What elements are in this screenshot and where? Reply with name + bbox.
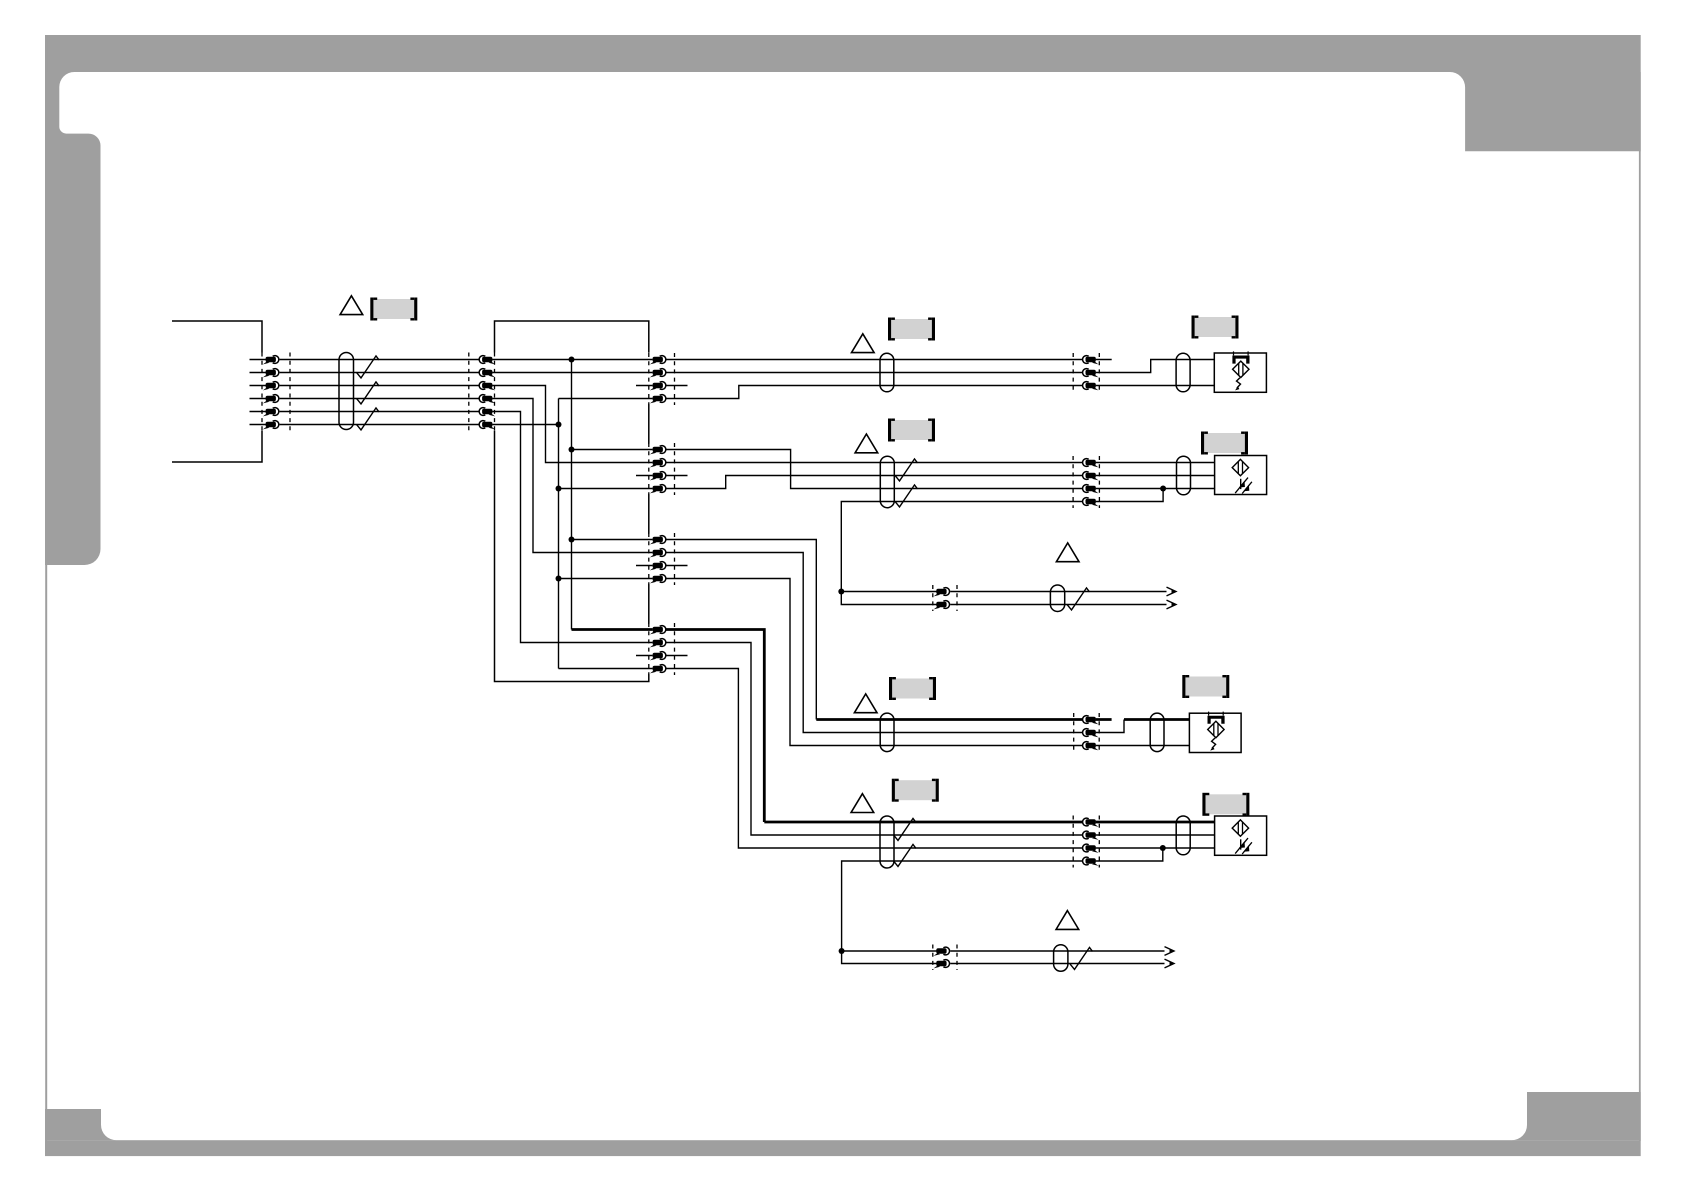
arrow, branch2 upper off-page <box>1165 947 1175 956</box>
twisted pair marker, cable4 pair 3-4 <box>894 844 917 866</box>
bus A vertical <box>571 360 573 630</box>
device D1 (photo emitter unit) <box>1214 351 1266 392</box>
twisted pair marker, cable4 pair 1-2 <box>894 818 917 840</box>
wire, NC stub left, group 4 pin3 <box>636 655 653 657</box>
arrow, branch2 lower off-page <box>1165 959 1175 968</box>
wire, input 2 to group1 pin2 <box>492 372 652 374</box>
wire, bus A to group2 pin1 <box>572 449 653 451</box>
central box right edge, dashed across pin groups <box>648 353 650 405</box>
wire, bus A to group3 pin1 <box>572 539 653 541</box>
wire, cable3 conductor 3 <box>666 579 1082 746</box>
wire, device3 return <box>1096 745 1190 747</box>
junction, bus B / group2 pin4 <box>556 486 562 492</box>
wire, branch2 lower run <box>950 963 1164 965</box>
bus B vertical <box>558 399 560 669</box>
connector pin, central input, pin 6 <box>479 421 495 430</box>
connector pin, source side, pin 2 <box>263 369 279 378</box>
wire, bus B to group1 pin4 <box>559 398 653 400</box>
cable shield, source cable <box>339 353 354 430</box>
cable shield, cable4 <box>880 816 894 868</box>
wire, input 6 to bus B <box>492 424 558 426</box>
wire, device2 line 1 <box>1096 462 1215 464</box>
connector pin, group 2 pin 2 <box>650 459 666 468</box>
wire, cable2 shield conductor / branch1 tie <box>841 502 1082 605</box>
connector pin, central input, pin 4 <box>479 395 495 404</box>
connector pin, branch2 pin2 <box>934 960 950 969</box>
connector pin, device1 connector pin 2 <box>1083 369 1099 378</box>
wire, bus B to group2 pin4 <box>559 488 653 490</box>
wire, input 5 to group4 pin2 <box>492 412 652 643</box>
connector pin, branch1 pin1 <box>934 588 950 597</box>
wire, bus B to group3 pin4 <box>559 578 653 580</box>
label placeholder, device4 <box>1202 793 1249 816</box>
wire, cable2 conductor from group2 pin4 (jog up) <box>666 476 1082 489</box>
wire, device3 signal jog up <box>1096 720 1124 733</box>
wire, device4 line 1 (bold) <box>1096 821 1215 824</box>
warning triangle, branch2 <box>1056 911 1079 930</box>
warning triangle, source cable <box>340 296 363 315</box>
wire, input 3 to group2 pin2 <box>492 386 652 463</box>
connector group 4, dashed boundary <box>674 623 676 675</box>
wire, NC stub left, group 2 pin3 <box>636 475 653 477</box>
wire, source cable conductor 5 <box>280 411 479 413</box>
label placeholder, device2 <box>1201 432 1248 455</box>
twisted pair marker, cable2 pair 3-4 <box>895 485 918 507</box>
wire, source cable conductor 6 <box>280 424 479 426</box>
wire, group4 pin1 drop (bold) <box>666 630 764 823</box>
wire, cable4 conductor 1 (bold) <box>764 821 1082 824</box>
wire, cable3 conductor 1 (bold) <box>816 718 1082 721</box>
connector pin, central input, pin 2 <box>479 369 495 378</box>
connector pin, device3 connector pin 3 <box>1083 742 1099 751</box>
connector CN device1, dashed boundaries <box>1072 353 1074 392</box>
wire stub inside source unit, pin 6 <box>250 424 267 426</box>
cable shield, cable1 <box>880 353 894 392</box>
wire, NC stub left, group 3 pin3 <box>636 565 653 567</box>
connector pin, device4 connector pin 1 <box>1083 818 1099 827</box>
wire, cable1 conductor 2 <box>666 372 1082 374</box>
wire, cable4 conductor 3 <box>666 669 1082 849</box>
wire, NC stub right, group 4 pin3 <box>666 655 688 657</box>
connector pin, central input, pin 1 <box>479 356 495 365</box>
label placeholder, cable1 <box>888 318 935 341</box>
connector pin, source side, pin 6 <box>263 421 279 430</box>
source unit box (open left) <box>172 321 262 462</box>
junction, bus A / group3 pin1 <box>569 537 575 543</box>
junction, bus B / input 6 <box>556 422 562 428</box>
wire, device1 return <box>1096 385 1215 387</box>
wire, device2 line 2 <box>1096 475 1215 477</box>
connector pin, group 2 pin 4 <box>650 485 666 494</box>
wire stub inside source unit, pin 2 <box>250 372 267 374</box>
wire, cable1 conductor 1 <box>666 359 1082 361</box>
connector pin, device2 connector pin 2 <box>1083 472 1099 481</box>
connector pin, device4 connector pin 2 <box>1083 831 1099 840</box>
wire, cable1 conductor 3 (jog up) <box>666 386 1082 399</box>
wire, NC stub device3 pin1 (bold) <box>1096 718 1112 721</box>
warning triangle, cable1 <box>852 334 875 353</box>
connector pin, group 2 pin 1 <box>650 446 666 455</box>
junction, branch2 tie <box>839 948 845 954</box>
connector pin, central input, pin 3 <box>479 382 495 391</box>
connector pin, device2 connector pin 3 <box>1083 485 1099 494</box>
wire, source cable conductor 2 <box>280 372 479 374</box>
connector CN device2, dashed boundaries <box>1072 456 1074 508</box>
wire, device3 signal (bold) <box>1124 718 1189 721</box>
wire, device2 line 3 <box>1096 488 1215 490</box>
wire, source cable conductor 3 <box>280 385 479 387</box>
wire, cable3 conductor 2 <box>666 553 1082 733</box>
wire, group3 pin1 drop <box>666 540 816 720</box>
cable shield, device4 pigtail <box>1176 816 1190 855</box>
connector pin, group 3 pin 1 <box>650 536 666 545</box>
wire, source cable conductor 1 <box>280 359 479 361</box>
junction, device2 lines 3-4 <box>1160 486 1166 492</box>
connector CN device3, dashed boundaries <box>1073 713 1075 752</box>
wire, branch1 upper run <box>950 591 1166 593</box>
junction, branch1 tie <box>838 589 844 595</box>
wire, NC stub right, group 3 pin3 <box>666 565 688 567</box>
arrow, branch1 lower off-page <box>1167 600 1177 609</box>
wire, NC stub right, group 2 pin3 <box>666 475 688 477</box>
label placeholder, cable4 <box>892 779 939 802</box>
connector pin, device3 connector pin 2 <box>1083 729 1099 738</box>
connector pin, group 3 pin 3 <box>650 562 666 571</box>
central box left edge, dashed across connector <box>494 353 496 431</box>
connector CN branch2, dashed boundaries <box>932 945 934 971</box>
connector pin, source side, pin 1 <box>263 356 279 365</box>
wire, source cable conductor 4 <box>280 398 479 400</box>
wire, device4 line 3 <box>1096 847 1215 849</box>
wire, cable2 conductor from group2 pin1 (jog down) <box>666 450 1082 489</box>
device D2 (photo receiver unit) <box>1215 456 1267 495</box>
connector CN device4, dashed boundaries <box>1072 816 1074 868</box>
twisted pair marker, branch1 <box>1067 588 1090 610</box>
connector group 2, dashed boundary <box>674 443 676 495</box>
connector pin, group 4 pin 2 <box>650 639 666 648</box>
central junction box outline <box>495 321 649 682</box>
wire, NC stub device1 pin1 <box>1096 359 1112 361</box>
connector pin, group 4 pin 3 <box>650 652 666 661</box>
connector pin, central input, pin 5 <box>479 408 495 417</box>
connector pin, group 3 pin 2 <box>650 549 666 558</box>
wire, cable4 shield conductor / branch2 tie <box>842 861 1083 964</box>
twisted pair marker, source pair 3-4 <box>357 382 380 404</box>
cable shield, device2 pigtail <box>1177 456 1191 495</box>
connector CN central input, dashed boundary <box>468 353 470 431</box>
connector pin, group 2 pin 3 <box>650 472 666 481</box>
junction, bus A / input 1 <box>569 357 575 363</box>
label placeholder, source cable <box>370 298 417 321</box>
device D3 (photo emitter unit) <box>1189 712 1241 753</box>
cable shield, branch2 <box>1054 945 1068 972</box>
wire, branch2 upper <box>842 950 937 952</box>
connector pin, device1 connector pin 3 <box>1083 382 1099 391</box>
junction, device4 lines 3-4 <box>1160 845 1166 851</box>
cable shield, device3 pigtail <box>1150 713 1164 752</box>
connector pin, branch2 pin1 <box>934 947 950 956</box>
wire, branch2 upper run <box>950 950 1164 952</box>
wire, device4 line 4 tied to line 3 <box>1096 848 1163 861</box>
connector pin, device3 connector pin 1 <box>1083 716 1099 725</box>
arrow, branch1 upper off-page <box>1167 587 1177 596</box>
connector pin, group 1 pin 3 <box>650 382 666 391</box>
wire, cable4 conductor 2 <box>666 643 1082 836</box>
connector pin, group 1 pin 4 <box>650 395 666 404</box>
label placeholder, cable3 <box>889 677 936 700</box>
label placeholder, device1 <box>1192 316 1239 339</box>
connector pin, group 4 pin 4 <box>650 665 666 674</box>
wire, branch1 lower run <box>950 604 1166 606</box>
connector pin, source side, pin 3 <box>263 382 279 391</box>
wire, device2 line 4 tied to line 3 <box>1096 489 1164 502</box>
wire, input 1 to group1 pin1 <box>492 359 652 361</box>
connector group 3, dashed boundary <box>674 533 676 585</box>
warning triangle, cable3 <box>854 694 877 713</box>
connector pin, device4 connector pin 4 <box>1083 857 1099 866</box>
wire, branch1 upper <box>841 591 936 593</box>
source unit box edge, dashed across connector <box>261 353 263 431</box>
connector pin, device4 connector pin 3 <box>1083 844 1099 853</box>
wire, bus A to group4 pin1 (bold) <box>572 628 653 631</box>
wire, cable2 conductor from group2 pin2 <box>666 462 1082 464</box>
cable shield, cable3 <box>880 713 894 752</box>
connector pin, device1 connector pin 1 <box>1083 356 1099 365</box>
connector pin, device2 connector pin 1 <box>1083 459 1099 468</box>
connector pin, group 1 pin 2 <box>650 369 666 378</box>
connector CN source, dashed boundary <box>289 353 291 431</box>
connector CN branch1, dashed boundaries <box>932 585 934 611</box>
wire, bus B to group4 pin4 <box>559 668 653 670</box>
wire, device1 signal (jog up) <box>1096 360 1215 373</box>
wire stub inside source unit, pin 5 <box>250 411 267 413</box>
connector pin, device2 connector pin 4 <box>1083 498 1099 507</box>
twisted pair marker, cable2 pair 1-2 <box>895 459 918 481</box>
label placeholder, cable2 <box>888 419 935 442</box>
label placeholder, device3 <box>1182 675 1229 698</box>
connector pin, branch1 pin2 <box>934 601 950 610</box>
connector group 1, dashed boundary <box>674 353 676 405</box>
warning triangle, cable4 <box>851 794 874 813</box>
wire, NC stub right, group 1 pin3 <box>666 385 688 387</box>
wire stub inside source unit, pin 1 <box>250 359 267 361</box>
connector pin, source side, pin 4 <box>263 395 279 404</box>
cable shield, branch1 <box>1050 585 1064 612</box>
twisted pair marker, source pair 5-6 <box>357 408 380 430</box>
wire stub inside source unit, pin 3 <box>250 385 267 387</box>
junction, bus B / group3 pin4 <box>556 576 562 582</box>
device D4 (photo receiver unit) <box>1215 816 1267 855</box>
connector pin, group 4 pin 1 <box>650 626 666 635</box>
cable shield, device1 pigtail <box>1176 353 1190 392</box>
warning triangle, branch1 <box>1056 543 1079 562</box>
wire stub inside source unit, pin 4 <box>250 398 267 400</box>
twisted pair marker, branch2 <box>1070 947 1093 969</box>
warning triangle, cable2 <box>855 434 878 453</box>
connector pin, source side, pin 5 <box>263 408 279 417</box>
wire, NC stub left, group 1 pin3 <box>636 385 653 387</box>
wire, device4 line 2 <box>1096 834 1215 836</box>
junction, bus A / group2 pin1 <box>569 447 575 453</box>
cable shield, cable2 <box>880 456 894 508</box>
twisted pair marker, source pair 1-2 <box>357 356 380 378</box>
wire, input 4 to group3 pin2 <box>492 399 652 553</box>
connector pin, group 1 pin 1 <box>650 356 666 365</box>
connector pin, group 3 pin 4 <box>650 575 666 584</box>
